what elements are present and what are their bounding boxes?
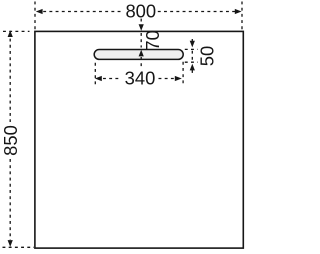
svg-text:340: 340 (125, 68, 156, 89)
slot (recess) (94, 50, 183, 60)
svg-text:800: 800 (125, 1, 156, 22)
dimension 50: lower arrowhead (points up to slot bottom) (190, 64, 195, 71)
dimension 850: top extension line (3, 30, 30, 32)
dimension 340: left arrowhead (95, 76, 102, 81)
dimension 340: left extension line (94, 63, 96, 85)
dimension 850: value label (0, 125, 21, 156)
dimension 70: lower arrowhead (points up to slot top edge) (139, 50, 144, 57)
dimension 800: dimension line (43, 11, 235, 13)
dimension 50: top extension line (185, 48, 198, 50)
dimension 800: left extension line (34, 2, 36, 31)
dimension 850: bottom extension line (3, 246, 35, 248)
dimension 50: upper arrowhead (points down to slot top) (190, 41, 195, 48)
dimension 800: value label (125, 1, 156, 22)
dimension 800: right extension line (241, 2, 243, 31)
dimension 850: bottom arrowhead (8, 240, 13, 247)
svg-text:850: 850 (0, 125, 21, 156)
dimension 70: upper arrowhead (points down to tray top edge) (139, 24, 144, 31)
dimension 800: left arrowhead (36, 9, 43, 14)
dimension 850: dimension line (9, 39, 11, 240)
dimension 340: dimension line (103, 78, 174, 80)
dimension 50: value label (197, 46, 218, 66)
dimension 340: right arrowhead (175, 76, 182, 81)
dimension 850: top arrowhead (8, 30, 13, 37)
dimension 340: value label (125, 68, 156, 89)
svg-text:70: 70 (142, 30, 163, 50)
dimension 70: value label (142, 30, 163, 50)
dimension 70: dimension line (140, 19, 142, 69)
tray outline (35, 31, 243, 248)
dimension 340: right extension line (182, 62, 184, 85)
dimension 50: bottom extension line (185, 61, 198, 63)
dimension 50: dimension line (191, 39, 193, 74)
dimension 800: right arrowhead (235, 9, 242, 14)
svg-text:50: 50 (197, 46, 218, 66)
